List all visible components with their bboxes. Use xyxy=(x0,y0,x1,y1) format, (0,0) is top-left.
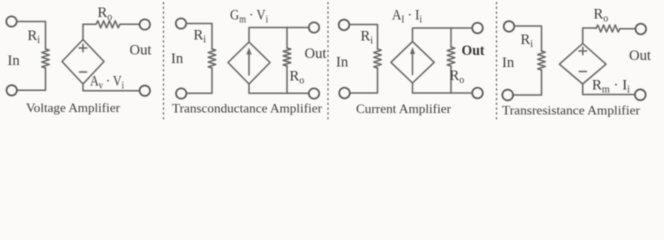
resistor Ro horizontal (panel 1) xyxy=(96,21,120,28)
output terminal top (panel 1) xyxy=(140,19,150,29)
svg-text:Rm · Ii: Rm · Ii xyxy=(592,78,630,96)
dependent current source diamond AI·Ii (panel 3) xyxy=(391,42,434,83)
wire source top to Ro (panel 1) xyxy=(83,24,96,39)
dependent voltage source diamond Av·Vi (panel 1) xyxy=(62,40,104,85)
dashed separator 3 xyxy=(496,2,498,122)
svg-text:Out: Out xyxy=(629,48,651,64)
svg-text:Out: Out xyxy=(305,46,327,62)
resistor Ri (panel 4) xyxy=(538,51,546,70)
output terminal top (panel 2) xyxy=(309,22,319,32)
output terminal top (panel 4) xyxy=(636,24,647,35)
wire source top to output top (panel 2) xyxy=(249,28,309,43)
wire source top to output top (panel 3) xyxy=(413,28,473,42)
svg-text:Out: Out xyxy=(130,43,152,59)
wire source bottom to output bottom (panel 1) xyxy=(83,84,140,91)
resistor Ri (panel 3) xyxy=(374,49,382,68)
input terminal top (panel 3) xyxy=(339,20,350,31)
wire source bottom to output bottom (panel 2) xyxy=(249,84,309,93)
wire source bottom to output bottom (panel 3) xyxy=(413,83,473,93)
wire input top to Ri (panel 1) xyxy=(17,22,46,50)
resistor Ri (panel 2) xyxy=(208,49,216,68)
output terminal bottom (panel 1) xyxy=(140,86,150,96)
wire input top to Ri (panel 2) xyxy=(186,24,212,50)
svg-text:Transresistance Amplifier: Transresistance Amplifier xyxy=(502,103,641,118)
dependent voltage source diamond Rm·Ii (panel 4) xyxy=(559,44,606,85)
wire Ri bottom to input bottom (panel 1) xyxy=(17,68,46,90)
wire Ri bottom to input bottom (panel 4) xyxy=(513,70,541,95)
svg-text:In: In xyxy=(336,55,349,71)
svg-text:Av · Vi: Av · Vi xyxy=(90,74,124,92)
wire junction to Ro top (panel 2) xyxy=(286,28,288,49)
dependent current source diamond Gm·Vi (panel 2) xyxy=(228,42,270,84)
input terminal bottom (panel 1) xyxy=(7,85,17,95)
dashed separator 2 xyxy=(327,2,329,122)
wire Ro to output top (panel 1) xyxy=(120,23,140,25)
input terminal bottom (panel 4) xyxy=(502,90,513,101)
resistor Ro horizontal (panel 4) xyxy=(596,25,620,32)
wire Ro bottom to rail (panel 2) xyxy=(286,66,288,93)
wire source top to Ro (panel 4) xyxy=(583,28,596,44)
svg-text:Out: Out xyxy=(462,43,485,59)
wire junction to Ro top (panel 3) xyxy=(450,28,452,47)
svg-text:Gm · Vi: Gm · Vi xyxy=(230,8,268,26)
svg-text:Current Amplifier: Current Amplifier xyxy=(356,101,452,116)
wire Ro to output top (panel 4) xyxy=(620,28,635,30)
output terminal bottom (panel 4) xyxy=(635,89,646,100)
wire Ro bottom to rail (panel 3) xyxy=(450,66,452,93)
svg-text:In: In xyxy=(171,51,184,67)
wire input top to Ri (panel 4) xyxy=(514,26,541,51)
input terminal top (panel 4) xyxy=(504,21,515,32)
resistor Ro vertical (panel 2) xyxy=(283,48,291,66)
svg-text:In: In xyxy=(502,55,515,71)
resistor Ro vertical (panel 3) xyxy=(447,47,455,66)
output terminal top (panel 3) xyxy=(472,23,483,34)
svg-text:Transconductance Amplifier: Transconductance Amplifier xyxy=(172,101,323,116)
input terminal bottom (panel 3) xyxy=(339,88,350,99)
input terminal top (panel 1) xyxy=(6,16,16,26)
input terminal top (panel 2) xyxy=(176,18,186,28)
wire input top to Ri (panel 3) xyxy=(349,25,377,50)
wire Ri bottom to input bottom (panel 3) xyxy=(350,68,378,93)
output terminal bottom (panel 3) xyxy=(472,88,483,99)
svg-text:AI · Ii: AI · Ii xyxy=(392,8,422,26)
dashed separator 1 xyxy=(163,2,165,122)
wire source bottom to output bottom (panel 4) xyxy=(583,84,635,95)
wire Ri bottom to input bottom (panel 2) xyxy=(186,68,212,93)
resistor Ri (panel 1) xyxy=(42,49,50,68)
svg-text:Voltage Amplifier: Voltage Amplifier xyxy=(26,100,121,115)
input terminal bottom (panel 2) xyxy=(176,88,186,98)
svg-text:In: In xyxy=(8,53,21,69)
output terminal bottom (panel 2) xyxy=(309,88,319,98)
